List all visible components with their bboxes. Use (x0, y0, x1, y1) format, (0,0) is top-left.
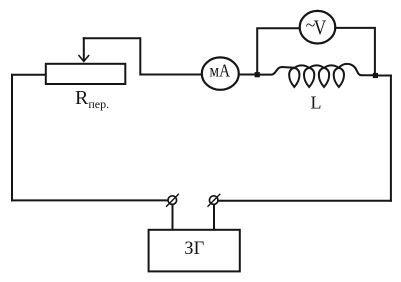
svg-text:L: L (311, 93, 322, 113)
resistor wiper arrow (83, 38, 85, 60)
wire right vertical (390, 76, 392, 201)
wire bottom left (12, 199, 168, 201)
wire ammeter to node A (239, 74, 257, 76)
node A junction (255, 72, 260, 77)
wire terminal 1 to generator (172, 205, 174, 230)
wire voltmeter to node B (335, 28, 375, 76)
resistor R1 body (46, 64, 126, 84)
wire terminal 2 to generator (213, 205, 215, 230)
wire resistor left lead (12, 74, 46, 76)
svg-text:V: V (314, 15, 327, 39)
wire left vertical (11, 75, 13, 201)
svg-text:ЗГ: ЗГ (184, 239, 204, 259)
wire wiper loop to ammeter (84, 38, 202, 74)
terminal 1 (168, 196, 177, 205)
wire bottom right (218, 200, 391, 202)
wire node B to right corner (375, 75, 391, 77)
voltmeter U2 ~V (300, 11, 336, 44)
ammeter U1 мА (202, 57, 239, 89)
node B junction (373, 73, 378, 78)
svg-text:мА: мА (210, 61, 231, 81)
svg-text:Rпер.: Rпер. (75, 87, 109, 111)
terminal 2 (209, 196, 218, 205)
wire node A up to voltmeter (257, 28, 300, 74)
generator box ЗГ (149, 230, 240, 272)
inductor L1 coil (257, 64, 375, 87)
